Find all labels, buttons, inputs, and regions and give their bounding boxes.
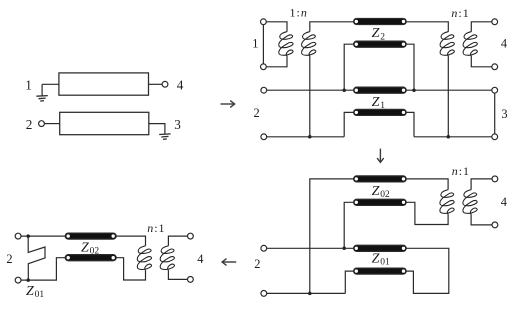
stub Z01 (zig-zag short-circuit stub) [28,236,45,280]
svg-text:4: 4 [501,195,507,209]
wire T4 right coil to port 4 bottom [168,270,187,279]
svg-text:2: 2 [254,257,260,271]
terminal port 4 top [492,19,498,25]
wire T3 right coil to port 4 bottom [471,214,492,225]
wire Z2b left down to middle rail [344,44,353,90]
ground at port 1 [36,96,47,102]
wire bottom rail left [267,136,345,138]
svg-text:2: 2 [253,106,259,120]
wire T2 right coil to port 4 bottom [471,56,492,67]
terminal port 2 bottom [261,291,267,297]
transformer T3 left coil [440,190,454,215]
wire port1 bottom to transformer T1 primary [266,56,287,67]
wire T4 right coil to port 4 top [168,236,187,246]
svg-text:1 : n: 1 : n [290,6,307,20]
svg-text:2: 2 [26,117,33,132]
terminal port 4 (top-left circuit) [162,81,168,87]
svg-text:Z01: Z01 [372,252,390,268]
line Z02 top conductor [354,176,407,182]
wire Z02b right to T4 left coil bottom [116,258,145,280]
svg-text:1: 1 [25,78,32,93]
arrow right [221,101,235,108]
line Z02 bottom conductor [65,255,116,261]
line Z1 top conductor [354,87,407,93]
transformer T2 right coil [463,32,477,57]
wire Z02b left down to middle rail [344,202,353,248]
junction stub top [26,234,30,238]
line Z02 bottom conductor [354,199,407,205]
svg-text:4: 4 [177,78,184,93]
svg-text:Z2: Z2 [372,26,386,42]
terminal port 3 bottom [492,134,498,140]
terminal port 4 top [188,233,194,239]
terminal port 2 bottom [261,134,267,140]
ground at port 3 [159,134,170,140]
terminal port 1 bottom [261,64,267,70]
wire bottom rail to Z02b [21,258,67,280]
line Z01 top conductor [354,245,407,251]
wire middle rail left [267,89,357,91]
line Z2 top conductor [354,18,407,24]
junction Z2b-right middle rail [412,88,416,92]
svg-text:Z01: Z01 [26,284,44,300]
line Z01 bottom conductor [354,268,407,274]
wire port2 top to line Z02 [21,235,66,237]
svg-text:Z02: Z02 [372,184,390,200]
terminal port 2 top [261,87,267,93]
wire port2 to box B [44,123,59,125]
wire box A to port 4 [149,83,163,85]
svg-text:n : 1: n : 1 [451,6,468,20]
wire T2 right coil to port 4 top [471,22,492,32]
wire Z2a to transformer T2 [406,22,448,32]
terminal port 2 top [261,245,267,251]
wire Z1b left down to bottom rail [344,112,353,136]
wire Z1b right down to bottom rail [406,112,414,136]
wire Z02a left to far bottom rail [310,179,354,294]
wire Z2b right down to middle rail [406,44,414,90]
svg-text:2: 2 [6,252,12,266]
svg-text:n : 1: n : 1 [452,164,469,178]
line Z02 top conductor [65,233,116,239]
wire Z02a right to transformer T4 [116,236,145,246]
terminal port 3 top [492,87,498,93]
svg-text:4: 4 [197,252,203,266]
wire Z01b left down to bottom rail [345,271,353,293]
wire Z01a right wrap to Z01b right [406,248,449,293]
transformer T1 primary coil [279,32,293,57]
transformer T3 right coil [463,190,477,215]
terminal port 4 top [492,176,498,182]
wire port1 top to transformer T1 primary [266,22,287,32]
arrow left [222,259,236,266]
line Z1 bottom conductor [354,109,407,115]
wire box B to ground port 3 [149,124,165,135]
terminal port 2 bottom [15,277,21,283]
transmission line box A [59,73,149,95]
transformer T4 right coil [160,246,174,271]
wire middle rail right [406,89,492,91]
wire T3 left coil bottom to Z02b right [406,202,448,224]
junction secondary-bottom rail [308,135,312,139]
junction stub bottom [26,278,30,282]
terminal port 2 (top-left circuit) [39,121,45,127]
wire T1 secondary bottom to bottom rail [309,56,311,137]
transformer T1 secondary coil [302,32,316,57]
junction Z2b-left middle rail [342,88,346,92]
terminal port 2 top [15,233,21,239]
terminal port 1 top [261,19,267,25]
svg-text:Z1: Z1 [372,95,386,111]
wire port1 vertical [262,25,264,64]
junction Z02a bottom rail [308,292,312,296]
junction T2-bottom rail [447,135,451,139]
wire Z02a right to transformer T3 [406,179,448,190]
transformer T4 left coil [137,246,151,271]
junction Z02b middle rail [342,247,346,251]
wire middle rail [267,247,357,249]
line Z2 bottom conductor [354,41,407,47]
transformer T2 left coil [440,32,454,57]
svg-text:4: 4 [501,37,507,51]
terminal port 4 bottom [188,277,194,283]
wire T1 secondary top to line Z2a [310,22,354,32]
wire T3 right coil to port 4 top [471,179,492,190]
wire T2 left coil bottom to bottom rail [447,56,449,137]
svg-text:n : 1: n : 1 [147,221,164,235]
wire bottom rail [267,292,346,294]
terminal port 4 bottom [492,222,498,228]
svg-text:3: 3 [501,107,507,121]
wire bottom rail right [414,136,492,138]
arrow down [377,149,384,163]
wire port1 to box A [42,84,59,95]
wire port3 vertical [494,93,496,134]
terminal port 4 bottom [492,64,498,70]
transmission line box B [60,112,149,134]
svg-text:3: 3 [174,117,181,132]
svg-text:1: 1 [252,37,258,51]
